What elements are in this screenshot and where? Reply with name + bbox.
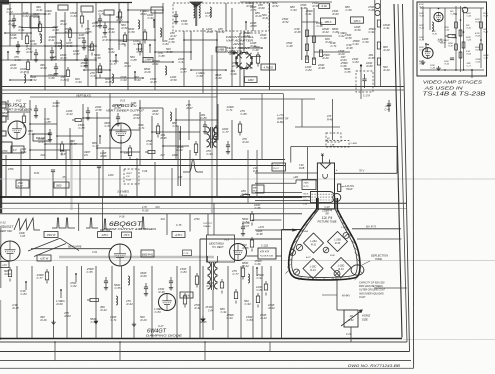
svg-text:C-49: C-49 (385, 108, 391, 111)
svg-text:R-31: R-31 (311, 244, 317, 247)
svg-text:R-35: R-35 (369, 56, 376, 60)
svg-text:C-62: C-62 (339, 34, 346, 38)
svg-text:C-17A: C-17A (363, 95, 370, 98)
svg-text:R-41: R-41 (484, 30, 488, 33)
svg-text:R-63: R-63 (333, 12, 340, 16)
svg-text:10MF: 10MF (19, 233, 25, 235)
svg-text:R-41: R-41 (467, 26, 471, 29)
svg-text:.001: .001 (155, 206, 160, 209)
svg-text:C-59: C-59 (346, 8, 353, 12)
svg-text:H.V. RECT: H.V. RECT (212, 246, 224, 249)
svg-text:R-41: R-41 (420, 15, 425, 18)
svg-text:R-4B): R-4B) (277, 121, 284, 124)
svg-text:140V: 140V (248, 78, 254, 82)
svg-text:R-38: R-38 (151, 80, 158, 84)
svg-text:C-48: C-48 (261, 36, 268, 40)
svg-text:C-77: C-77 (181, 70, 188, 74)
svg-text:R-80: R-80 (330, 255, 336, 257)
svg-text:C-93: C-93 (227, 316, 234, 320)
svg-text:C-91: C-91 (179, 60, 186, 64)
svg-text:R-52: R-52 (79, 36, 86, 40)
svg-text:TS-14B & TS-23B: TS-14B & TS-23B (423, 91, 487, 97)
svg-text:C-62: C-62 (71, 284, 78, 288)
svg-text:6.3VAC: 6.3VAC (273, 164, 281, 167)
svg-text:L-4B: L-4B (330, 144, 335, 147)
svg-text:R-44: R-44 (67, 112, 74, 116)
svg-text:60+ R-73: 60+ R-73 (366, 225, 377, 228)
svg-text:R-29: R-29 (384, 68, 391, 72)
svg-text:C-77: C-77 (71, 142, 78, 146)
svg-text:PICTURE TUBE: PICTURE TUBE (317, 219, 336, 223)
svg-text:C-48: C-48 (253, 48, 260, 52)
svg-text:R-45: R-45 (253, 170, 259, 173)
svg-text:R-47: R-47 (39, 140, 46, 144)
svg-text:R-41: R-41 (420, 6, 425, 9)
svg-text:C-59: C-59 (182, 22, 189, 26)
svg-text:R-63: R-63 (341, 58, 348, 62)
svg-text:CAPACITY OF 500-1500: CAPACITY OF 500-1500 (359, 282, 385, 285)
svg-text:AND INNER AQUADAG: AND INNER AQUADAG (358, 292, 384, 295)
svg-text:TRANS: TRANS (203, 225, 211, 228)
svg-text:R-58: R-58 (3, 114, 10, 118)
svg-text:R-41: R-41 (21, 150, 28, 154)
svg-text:C-66: C-66 (67, 44, 74, 48)
svg-text:VERT SHOT GEN: VERT SHOT GEN (4, 109, 32, 112)
svg-text:HORIZ OUTPUT & H.V. GEN: HORIZ OUTPUT & H.V. GEN (104, 228, 156, 231)
svg-text:R-52: R-52 (27, 50, 34, 54)
svg-text:R-38: R-38 (295, 30, 302, 34)
svg-text:6SN7GT: 6SN7GT (0, 225, 14, 229)
svg-text:COAT.: COAT. (359, 296, 366, 299)
svg-text:OUTPUT: OUTPUT (203, 223, 213, 225)
svg-text:BEAD WIRE: BEAD WIRE (68, 246, 82, 249)
svg-text:HORIZ: HORIZ (362, 314, 370, 318)
svg-text:C-78: C-78 (184, 253, 190, 255)
svg-text:VERT: VERT (126, 173, 132, 175)
svg-text:C-91: C-91 (19, 28, 26, 32)
svg-text:+170 C: +170 C (175, 234, 183, 237)
svg-text:C-62: C-62 (81, 64, 88, 68)
svg-text:1M: 1M (349, 315, 352, 318)
svg-text:R-52: R-52 (117, 18, 124, 22)
svg-text:R-41: R-41 (433, 33, 438, 36)
svg-text:C-84: C-84 (353, 60, 360, 64)
svg-text:R-50: R-50 (247, 4, 254, 8)
svg-text:C-88: C-88 (11, 36, 18, 40)
svg-text:12L P4: 12L P4 (322, 216, 333, 220)
svg-text:R-38: R-38 (257, 232, 264, 236)
svg-text:R-52: R-52 (273, 4, 280, 8)
svg-text:C-81: C-81 (92, 251, 98, 254)
svg-text:R-38: R-38 (347, 46, 354, 50)
svg-text:R-50: R-50 (53, 28, 60, 32)
svg-text:R-124: R-124 (440, 42, 447, 45)
svg-text:+25? W: +25? W (40, 258, 49, 261)
svg-text:L-26A: L-26A (310, 240, 317, 243)
svg-text:C-55: C-55 (115, 286, 122, 290)
svg-text:R-44: R-44 (97, 70, 104, 74)
svg-text:C-71: C-71 (139, 126, 146, 130)
svg-text:C-71: C-71 (111, 318, 118, 322)
svg-text:R-35: R-35 (103, 38, 110, 42)
svg-text:VERT-BLKG: VERT-BLKG (76, 94, 91, 98)
svg-text:LIN: LIN (126, 176, 130, 178)
svg-text:C-88: C-88 (201, 116, 208, 120)
svg-text:V-16: V-16 (119, 215, 125, 219)
svg-text:V-17: V-17 (158, 324, 164, 328)
svg-text:R-63: R-63 (135, 78, 142, 82)
svg-text:OUTER GROUND COAT: OUTER GROUND COAT (359, 289, 385, 292)
svg-text:C-84: C-84 (208, 309, 214, 312)
svg-text:VIDEO AMP STAGES: VIDEO AMP STAGES (423, 80, 483, 85)
svg-text:R-41: R-41 (153, 62, 160, 66)
svg-text:R-29: R-29 (384, 48, 391, 52)
svg-text:R-35: R-35 (21, 70, 28, 74)
svg-text:R-52: R-52 (34, 172, 40, 175)
svg-text:R-58: R-58 (115, 106, 122, 110)
svg-text:6 V: 6 V (13, 149, 17, 152)
svg-text:R-44: R-44 (141, 12, 148, 16)
svg-text:R-30: R-30 (335, 242, 341, 245)
svg-text:C-84: C-84 (61, 78, 68, 82)
svg-text:R-60: R-60 (141, 274, 148, 278)
svg-text:R-29: R-29 (141, 318, 148, 322)
svg-text:C-55: C-55 (255, 206, 262, 210)
svg-text:R-16: R-16 (121, 193, 128, 197)
svg-text:R-10B R-10B: R-10B R-10B (260, 256, 274, 258)
svg-text:R-38: R-38 (106, 80, 113, 84)
svg-text:R-26: R-26 (145, 70, 152, 74)
svg-text:76 V: 76 V (359, 170, 364, 173)
svg-text:R-44: R-44 (127, 302, 134, 306)
svg-text:C-88: C-88 (45, 120, 52, 124)
svg-text:C-66: C-66 (142, 170, 148, 173)
svg-text:C-66: C-66 (255, 262, 262, 266)
svg-text:C-83: C-83 (181, 270, 188, 274)
svg-text:.047: .047 (160, 154, 165, 157)
svg-text:R-44: R-44 (29, 132, 36, 136)
svg-text:C-55: C-55 (345, 70, 352, 74)
svg-text:14B6: 14B6 (218, 48, 225, 52)
svg-text:3000: 3000 (56, 184, 62, 187)
svg-text:C-59: C-59 (197, 74, 204, 78)
svg-text:C-91: C-91 (306, 12, 313, 16)
svg-text:R-70: R-70 (304, 186, 310, 188)
svg-text:R-35: R-35 (243, 246, 250, 250)
svg-text:1200: 1200 (108, 174, 114, 177)
svg-text:6BQ6GT: 6BQ6GT (109, 221, 144, 228)
svg-text:C-66: C-66 (49, 76, 56, 80)
svg-text:750K: 750K (304, 183, 310, 185)
svg-text:.001: .001 (40, 154, 45, 157)
svg-text:1700: 1700 (18, 183, 24, 185)
svg-text:C-93: C-93 (245, 302, 252, 306)
svg-text:C-88: C-88 (131, 58, 138, 62)
svg-text:C-93: C-93 (353, 42, 360, 46)
svg-text:C-93: C-93 (291, 8, 298, 12)
svg-text:AS USED IN: AS USED IN (423, 85, 463, 90)
svg-text:R-63: R-63 (41, 66, 48, 70)
svg-text:R-38: R-38 (159, 290, 166, 294)
svg-text:R-44: R-44 (109, 30, 116, 34)
svg-text:L-26A: L-26A (302, 230, 308, 233)
svg-text:C-91: C-91 (55, 44, 62, 48)
svg-text:R-50: R-50 (171, 78, 178, 82)
svg-text:C-55: C-55 (86, 30, 93, 34)
svg-text:-145 C: -145 C (101, 234, 108, 237)
svg-text:C-71: C-71 (331, 44, 338, 48)
svg-text:16BP4: 16BP4 (322, 209, 332, 213)
svg-text:C-48: C-48 (287, 44, 294, 48)
svg-text:C-77: C-77 (111, 62, 118, 66)
svg-text:C-55: C-55 (91, 74, 98, 78)
svg-text:C-93: C-93 (207, 152, 214, 156)
svg-text:C-77: C-77 (37, 276, 44, 280)
svg-text:R-26: R-26 (65, 30, 72, 34)
svg-text:10MF: 10MF (172, 155, 178, 157)
svg-text:C-59: C-59 (105, 124, 112, 128)
svg-text:R-41: R-41 (37, 8, 44, 12)
svg-text:R-63: R-63 (125, 64, 132, 68)
svg-text:C-87: C-87 (244, 226, 250, 228)
svg-text:C-88: C-88 (257, 288, 264, 292)
svg-text:R-60: R-60 (5, 272, 12, 276)
svg-text:R-38: R-38 (13, 306, 20, 310)
svg-text:R-35: R-35 (45, 12, 52, 16)
svg-text:A-27: A-27 (305, 256, 311, 259)
svg-text:R-50: R-50 (207, 30, 214, 34)
svg-text:1700: 1700 (124, 152, 130, 155)
svg-text:LIN: LIN (84, 154, 88, 157)
svg-text:C-83: C-83 (15, 58, 22, 62)
svg-text:R-82: R-82 (348, 319, 354, 322)
svg-text:TRAP: TRAP (346, 188, 353, 191)
svg-text:R-44: R-44 (61, 22, 68, 26)
svg-text:C-77: C-77 (93, 144, 100, 148)
svg-text:C-77: C-77 (223, 130, 230, 134)
svg-text:170 C: 170 C (123, 234, 130, 237)
svg-text:R-44: R-44 (101, 308, 108, 312)
svg-text:C-71: C-71 (251, 8, 258, 12)
svg-text:R-60: R-60 (367, 64, 374, 68)
svg-text:C-71: C-71 (227, 108, 234, 112)
svg-text:R-29: R-29 (323, 56, 330, 60)
svg-text:6000 R-41: 6000 R-41 (142, 254, 154, 257)
svg-text:C-91: C-91 (369, 30, 376, 34)
svg-text:PILOT: PILOT (273, 168, 280, 170)
svg-text:R-33: R-33 (338, 268, 344, 271)
svg-text:4.5KV: 4.5KV (333, 278, 339, 281)
svg-text:R-26: R-26 (211, 140, 218, 144)
svg-text:R-26: R-26 (101, 154, 108, 158)
svg-text:185 C: 185 C (325, 20, 332, 24)
svg-text:R-58: R-58 (95, 56, 102, 60)
svg-text:R-58: R-58 (313, 4, 320, 8)
svg-text:C-77: C-77 (51, 58, 58, 62)
svg-text:C-66: C-66 (119, 42, 126, 46)
svg-text:R-44: R-44 (207, 284, 214, 288)
svg-text:R-58: R-58 (251, 24, 258, 28)
svg-text:3.9K: 3.9K (299, 165, 304, 167)
svg-text:R-29: R-29 (9, 22, 16, 26)
svg-text:C-91: C-91 (242, 192, 249, 196)
svg-text:C-76: C-76 (176, 224, 182, 227)
svg-text:C-48: C-48 (301, 6, 308, 10)
svg-text:C-11B: C-11B (261, 245, 268, 248)
svg-text:C-59: C-59 (169, 40, 176, 44)
svg-text:R-44: R-44 (126, 179, 132, 182)
svg-text:R-52: R-52 (219, 30, 226, 34)
svg-text:C-88: C-88 (241, 112, 248, 116)
svg-text:C-88: C-88 (20, 236, 26, 238)
svg-text:+473: +473 (258, 225, 264, 229)
svg-text:C-20: C-20 (346, 333, 352, 336)
svg-text:L-26C: L-26C (310, 266, 317, 269)
svg-text:C-83: C-83 (155, 310, 162, 314)
svg-text:C-88: C-88 (159, 54, 166, 58)
svg-text:R-44: R-44 (269, 306, 276, 310)
svg-text:2700: 2700 (1, 150, 8, 153)
svg-text:C-59: C-59 (173, 124, 180, 128)
svg-text:R-60: R-60 (216, 76, 223, 80)
svg-text:C-62: C-62 (23, 14, 30, 18)
svg-text:R-47: R-47 (187, 106, 194, 110)
svg-text:C-55: C-55 (87, 270, 94, 274)
svg-text:C-91: C-91 (147, 142, 154, 146)
svg-text:R-44: R-44 (323, 30, 330, 34)
svg-text:CONTRAST: CONTRAST (438, 39, 450, 42)
svg-text:R-35: R-35 (161, 136, 168, 140)
svg-text:R-41: R-41 (263, 16, 270, 20)
svg-text:47K: 47K (178, 176, 183, 179)
svg-text:R-52: R-52 (31, 78, 38, 82)
svg-text:2.2K: 2.2K (252, 168, 258, 170)
svg-text:R-52: R-52 (131, 104, 138, 108)
svg-text:C-66: C-66 (231, 72, 238, 76)
svg-text:R-35: R-35 (61, 56, 68, 60)
svg-text:150V W: 150V W (47, 234, 56, 237)
svg-text:1.8MF: 1.8MF (144, 58, 152, 62)
svg-text:R-38: R-38 (319, 66, 326, 70)
svg-text:R-34: R-34 (310, 269, 316, 272)
svg-text:R-63: R-63 (65, 314, 72, 318)
svg-text:R-60: R-60 (259, 6, 266, 10)
svg-text:MAX: MAX (253, 187, 258, 190)
svg-text:R-44: R-44 (261, 316, 268, 320)
svg-text:R-58: R-58 (96, 108, 103, 112)
svg-text:C-91: C-91 (257, 276, 264, 280)
svg-text:C-59: C-59 (129, 30, 136, 34)
svg-text:C-93: C-93 (121, 78, 128, 82)
svg-text:C-88: C-88 (79, 126, 86, 130)
svg-text:JACKET: JACKET (226, 49, 242, 53)
svg-text:R-52: R-52 (153, 112, 160, 116)
svg-text:R-37: R-37 (18, 186, 24, 188)
svg-text:R-26: R-26 (41, 318, 48, 322)
svg-text:0.01: 0.01 (322, 4, 328, 8)
svg-text:DWG NO. RX771243-BB: DWG NO. RX771243-BB (348, 364, 401, 368)
svg-text:C-66: C-66 (369, 8, 376, 12)
svg-text:4.7MEG: 4.7MEG (263, 66, 273, 70)
svg-text:C-77: C-77 (233, 272, 240, 276)
svg-text:47K 47K: 47K 47K (260, 251, 270, 254)
svg-text:C-83: C-83 (21, 292, 28, 296)
svg-text:C-83: C-83 (247, 318, 254, 322)
svg-text:C-59: C-59 (363, 40, 370, 44)
svg-text:L-26D: L-26D (338, 265, 345, 268)
svg-text:R-44: R-44 (21, 108, 28, 112)
svg-text:DAMPING DIODE: DAMPING DIODE (146, 334, 183, 338)
svg-text:VERT OSC: VERT OSC (0, 230, 12, 233)
svg-text:.001: .001 (160, 218, 165, 221)
svg-text:C-48: C-48 (89, 48, 96, 52)
svg-text:TELE: TELE (303, 194, 309, 196)
svg-text:40-4KV: 40-4KV (342, 295, 350, 298)
svg-text:R-44: R-44 (243, 264, 250, 268)
svg-text:C-84: C-84 (71, 14, 78, 18)
svg-text:R-48: R-48 (327, 118, 333, 121)
svg-text:C-84: C-84 (306, 68, 313, 72)
svg-text:C-59: C-59 (167, 50, 174, 54)
svg-text:C-84: C-84 (7, 10, 14, 14)
svg-text:R-52: R-52 (283, 20, 290, 24)
svg-text:+463: +463 (293, 176, 299, 179)
svg-text:C-62: C-62 (109, 50, 116, 54)
svg-text:R-50: R-50 (355, 28, 362, 32)
svg-text:R-6B: R-6B (299, 168, 305, 170)
svg-text:20+ MF: 20+ MF (241, 223, 250, 225)
svg-text:R-47: R-47 (74, 52, 81, 56)
svg-text:C-93: C-93 (148, 16, 155, 20)
svg-text:R-29: R-29 (243, 140, 250, 144)
svg-text:135 C: 135 C (354, 19, 361, 23)
svg-text:DEFLECTION: DEFLECTION (371, 253, 388, 257)
svg-text:C-59: C-59 (31, 42, 38, 46)
svg-text:R-60: R-60 (57, 302, 64, 306)
svg-text:R-105: R-105 (142, 209, 149, 212)
svg-text:L-26B: L-26B (341, 227, 347, 229)
svg-text:BLK: BLK (253, 191, 258, 193)
svg-text:470K: 470K (8, 168, 14, 171)
svg-text:R-26: R-26 (53, 104, 60, 108)
svg-text:YOKE: YOKE (375, 257, 383, 261)
svg-text:R-52: R-52 (134, 116, 141, 120)
svg-text:R-29: R-29 (11, 66, 18, 70)
svg-text:C-40B: C-40B (351, 142, 358, 145)
svg-text:C-93: C-93 (76, 80, 83, 84)
svg-text:+4 C: +4 C (2, 264, 7, 267)
svg-text:L-26B: L-26B (334, 239, 341, 242)
svg-text:1B3GT/8016: 1B3GT/8016 (209, 242, 224, 246)
svg-text:SIZE: SIZE (362, 317, 368, 321)
svg-text:R-60: R-60 (177, 148, 184, 152)
svg-text:C-91: C-91 (384, 26, 391, 30)
svg-text:4700: 4700 (194, 218, 200, 221)
